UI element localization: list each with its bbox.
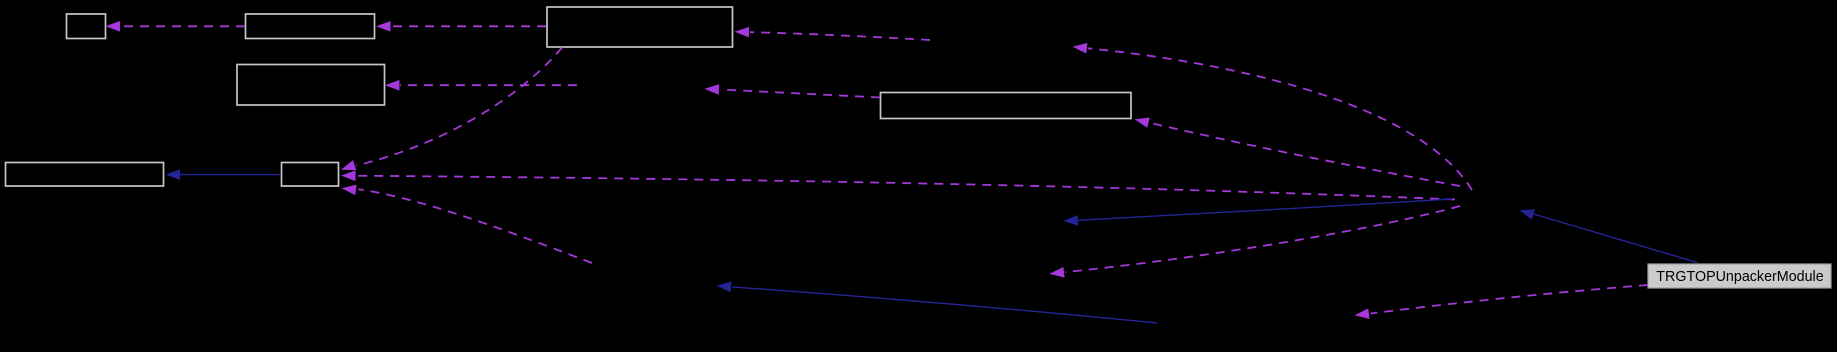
node box3 (two-line tall, second row): [237, 65, 385, 106]
edge E4 dashed curve: hub to hidden top node: [1073, 43, 1473, 190]
node box1 (top-left small): [67, 14, 106, 39]
edge E10 dashed: hub to box5 bottom-right: [1135, 118, 1461, 187]
node box4 (top center large two-line): [547, 7, 733, 47]
node box6 (small, mid-left): [282, 163, 339, 187]
edge E7 dashed curve: box4 to box6: [341, 48, 562, 171]
edge B4 blue solid: hidden bottom node to hidden node left: [717, 282, 1158, 324]
edge E9 dashed: hidden bottom node to box6: [342, 185, 593, 263]
node box2 (top row medium): [246, 14, 375, 39]
edge E1 dashed: box2 to box1: [106, 21, 246, 32]
node box5 (wide middle): [881, 93, 1132, 119]
edge E6 dashed: hidden mid node to box3: [385, 80, 577, 91]
edge B1 blue solid: box6 to box7: [166, 169, 282, 180]
edge B3 blue solid: TRGTOPUnpackerModule to hub: [1520, 209, 1698, 262]
edge E12 dashed: TRGTOPUnpackerModule to hidden node bottom: [1355, 285, 1649, 319]
edge E11 dashed: hub to hidden node lower middle: [1050, 206, 1461, 278]
node box7 (left wide): [6, 163, 164, 187]
node TRGTOPUnpackerModule (highlighted): [1648, 264, 1831, 288]
edge E8 dashed long: hub to box6: [341, 171, 1455, 200]
edge B2 blue solid: hub to hidden node middle: [1064, 199, 1453, 226]
svg-text:TRGTOPUnpackerModule: TRGTOPUnpackerModule: [1656, 269, 1823, 285]
edge E2 dashed: box4 to box2: [376, 21, 546, 32]
edge E3 dashed: hidden top node to box4: [735, 27, 931, 40]
edge E5 dashed: box5 to hidden mid node: [705, 84, 881, 97]
